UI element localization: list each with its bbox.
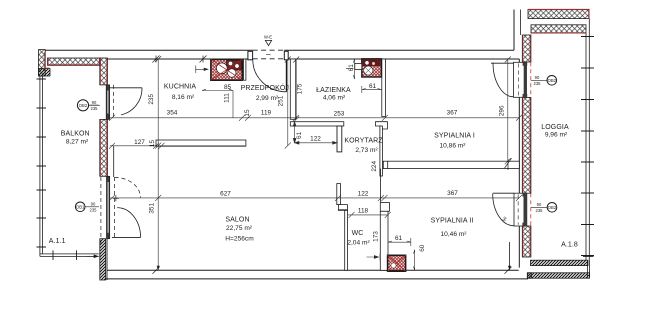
wall lazienka south — [290, 122, 344, 126]
wall piece lazienka south-east L — [376, 122, 388, 129]
svg-text:OB2: OB2 — [79, 103, 88, 108]
svg-text:235: 235 — [536, 208, 544, 213]
svg-text:KUCHNIA: KUCHNIA — [164, 83, 196, 90]
svg-text:15: 15 — [244, 109, 251, 117]
wall wc east jamb — [380, 203, 389, 212]
dim 61 korytarz — [293, 122, 296, 143]
door balcony salon upper arc dashed — [115, 177, 141, 198]
svg-text:235: 235 — [534, 81, 542, 86]
wall wc step — [337, 205, 348, 211]
svg-text:60: 60 — [419, 244, 426, 252]
wall east inner line — [518, 59, 520, 268]
wall bottom inner line — [108, 269, 519, 271]
svg-text:15: 15 — [149, 140, 156, 148]
svg-text:LOGGIA: LOGGIA — [541, 124, 569, 131]
arrow wc — [367, 254, 381, 261]
svg-text:354: 354 — [167, 110, 178, 117]
wall kitchen/przedpokoj — [244, 59, 246, 80]
svg-text:61: 61 — [296, 131, 303, 139]
svg-text:PRZEDPOKÓJ: PRZEDPOKÓJ — [241, 83, 289, 92]
balcony railing ticks — [37, 79, 77, 260]
svg-text:W-E: W-E — [264, 35, 272, 40]
loggia railing ticks — [581, 37, 594, 256]
svg-text:A.1.1: A.1.1 — [49, 238, 66, 245]
svg-text:SYPIALNIA I: SYPIALNIA I — [434, 133, 475, 140]
fixture lazienka washer — [355, 59, 382, 77]
svg-text:9,96 m²: 9,96 m² — [545, 131, 568, 138]
svg-text:127: 127 — [134, 139, 145, 146]
wall bottom outer line — [106, 278, 528, 280]
door entrance arc — [253, 60, 287, 92]
wall top outer line — [45, 10, 514, 51]
svg-text:90: 90 — [535, 75, 540, 80]
loggia bottom band lower — [528, 273, 590, 278]
svg-text:OB2: OB2 — [548, 205, 557, 210]
balcony parapet top hatched — [48, 58, 100, 65]
door loggia sypialnia I — [491, 62, 531, 97]
svg-text:119: 119 — [261, 110, 272, 117]
svg-text:118: 118 — [358, 208, 369, 215]
svg-text:4,06 m²: 4,06 m² — [323, 94, 346, 101]
svg-text:235: 235 — [148, 94, 155, 105]
wall kitchen-salon stub — [156, 140, 246, 146]
svg-text:224: 224 — [371, 161, 378, 172]
svg-text:OB1: OB1 — [76, 204, 85, 209]
svg-text:90: 90 — [92, 100, 97, 105]
svg-text:122: 122 — [358, 191, 369, 198]
svg-text:627: 627 — [220, 191, 231, 198]
svg-text:10,46 m²: 10,46 m² — [440, 231, 467, 238]
svg-text:10,86 m²: 10,86 m² — [439, 143, 466, 150]
svg-text:2,73 m²: 2,73 m² — [355, 147, 378, 154]
door entrance leaf — [285, 60, 287, 92]
arrow into west wall at salon — [86, 253, 100, 261]
svg-text:A.1.8: A.1.8 — [561, 242, 578, 249]
svg-text:351: 351 — [149, 203, 156, 214]
svg-text:8,16 m²: 8,16 m² — [172, 94, 195, 101]
tick top inner x203 — [200, 56, 207, 63]
svg-text:251: 251 — [278, 95, 285, 106]
line interior bottom-right x509.5 — [509, 242, 511, 270]
svg-text:2,99 m²: 2,99 m² — [256, 95, 279, 102]
dim h y145.8 — [109, 143, 245, 149]
fixture kitchen — [211, 59, 242, 80]
wall wc east — [380, 211, 388, 270]
dim v x158 — [155, 56, 161, 270]
room labels — [49, 83, 578, 249]
dim 111 — [232, 91, 234, 118]
dim chain y117.8 — [108, 117, 519, 119]
loggia bottom tick — [583, 255, 594, 257]
svg-text:111: 111 — [224, 93, 231, 103]
wall lazienka east — [382, 59, 386, 117]
wall wc east line — [380, 169, 382, 203]
arrow kitchen — [195, 66, 208, 74]
svg-text:173: 173 — [373, 231, 380, 242]
loggia left edge lines top — [520, 10, 522, 36]
svg-text:ŁAZIENKA: ŁAZIENKA — [316, 87, 351, 94]
svg-text:235: 235 — [90, 208, 98, 213]
dim labels — [134, 64, 505, 252]
svg-text:SYPIALNIA II: SYPIALNIA II — [431, 217, 474, 224]
wall west hatched (balcony side) — [100, 58, 108, 280]
wall korytarz east — [380, 126, 383, 176]
loggia top band inner — [531, 25, 586, 33]
door entrance dashed opening — [253, 50, 285, 59]
loggia bottom corner square — [527, 273, 531, 278]
window symbol balkon salon — [75, 201, 99, 212]
loggia top band outer — [528, 9, 589, 18]
dim 175 — [293, 57, 299, 123]
dim 296 — [505, 57, 511, 165]
line west interior x113.7 — [113, 146, 115, 178]
svg-text:61: 61 — [369, 83, 377, 90]
svg-text:85: 85 — [224, 84, 232, 91]
svg-text:8,27 m²: 8,27 m² — [66, 139, 89, 146]
svg-text:WC: WC — [352, 230, 364, 237]
wall przedpokoj east — [290, 59, 295, 119]
door loggia sypialnia II — [493, 193, 531, 226]
door entrance jambs — [248, 51, 253, 60]
door balcony kitchen leaf+arc — [110, 87, 142, 89]
entry marker WE — [264, 35, 272, 46]
svg-text:296: 296 — [498, 105, 505, 116]
wall wc west lower — [345, 210, 348, 270]
svg-text:235: 235 — [91, 106, 99, 111]
wall sypialnia divider — [383, 158, 519, 170]
dim 60 wc — [414, 250, 415, 271]
svg-text:90: 90 — [91, 201, 96, 206]
window symbol loggia top — [531, 75, 557, 86]
svg-text:367: 367 — [447, 190, 458, 197]
window symbol loggia bottom — [531, 202, 557, 213]
svg-text:2,04 m²: 2,04 m² — [347, 239, 370, 246]
svg-text:BALKON: BALKON — [61, 130, 90, 137]
dim chain y197.9 — [110, 197, 520, 199]
door leaf lazienka — [337, 126, 342, 152]
svg-text:175: 175 — [297, 83, 304, 94]
tick top inner x156 — [153, 56, 160, 63]
dim 61 lazienka h — [362, 86, 382, 93]
dims — [108, 56, 522, 270]
tick bottom x508 — [505, 267, 512, 274]
svg-text:H=256cm: H=256cm — [225, 236, 254, 243]
dim 122 korytarz — [295, 141, 337, 144]
wall wc west upper — [337, 184, 341, 205]
svg-text:122: 122 — [310, 136, 321, 143]
loggia railing right — [586, 19, 589, 261]
dim 61 wc — [388, 238, 411, 246]
svg-text:22,75 m²: 22,75 m² — [226, 225, 253, 232]
dim 251 — [285, 57, 291, 149]
wall east hatched — [522, 35, 531, 257]
fixture wc shaft — [388, 255, 406, 271]
svg-text:OB2: OB2 — [548, 78, 557, 83]
svg-text:SALON: SALON — [225, 217, 249, 224]
dim 61 lazienka v — [346, 59, 355, 79]
door balcony kitchen frame — [106, 85, 113, 120]
tick bottom x156 — [153, 267, 160, 274]
svg-text:90: 90 — [537, 202, 542, 207]
loggia bottom right connector — [587, 260, 589, 278]
balcony corner wall top-left — [39, 50, 51, 76]
dim 118 — [348, 212, 391, 218]
svg-text:253: 253 — [334, 110, 345, 117]
loggia bottom band upper — [531, 260, 589, 265]
svg-text:61: 61 — [348, 64, 355, 72]
balcony railing left — [40, 76, 99, 256]
svg-text:367: 367 — [447, 110, 458, 117]
door balcony salon frame — [101, 176, 115, 243]
svg-text:KORYTARZ: KORYTARZ — [344, 138, 383, 145]
wall top inner line — [108, 58, 520, 60]
door balcony salon lower arc — [117, 208, 140, 238]
window symbol balkon kuchnia — [77, 100, 100, 111]
svg-text:61: 61 — [395, 235, 403, 242]
dim 85 — [202, 89, 233, 90]
